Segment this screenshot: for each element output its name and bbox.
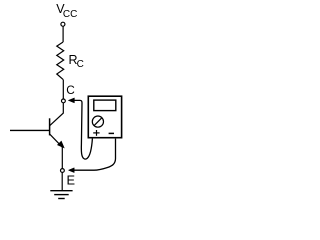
net label Vcc xyxy=(56,2,77,20)
arrow to node C xyxy=(68,98,74,103)
multimeter minus terminal xyxy=(109,132,114,134)
probe lead plus to node C xyxy=(74,100,92,159)
terminal Vcc xyxy=(61,22,65,26)
wire Rc to node C xyxy=(62,80,64,99)
svg-text:C: C xyxy=(77,59,84,70)
node E terminal xyxy=(61,169,65,173)
wire emitter to node E xyxy=(61,147,63,169)
ground xyxy=(50,191,72,199)
multimeter display xyxy=(94,100,116,111)
wire node E to ground xyxy=(61,172,63,190)
probe lead minus to node E xyxy=(74,139,116,171)
multimeter knob slash xyxy=(94,117,102,125)
transistor Q1 base bar xyxy=(49,118,51,135)
arrow to node E xyxy=(68,168,74,173)
svg-text:CC: CC xyxy=(63,9,77,20)
wire Vcc to Rc xyxy=(62,26,64,42)
transistor Q1 collector lead xyxy=(50,103,64,126)
svg-text:E: E xyxy=(67,172,76,187)
node C terminal xyxy=(62,99,66,103)
transistor Q1 emitter arrow xyxy=(58,141,65,148)
multimeter plus terminal xyxy=(93,130,99,136)
transistor Q1 base lead xyxy=(10,129,50,131)
svg-text:C: C xyxy=(66,83,75,97)
label RC xyxy=(69,53,84,70)
multimeter knob xyxy=(92,116,103,127)
resistor RC xyxy=(57,42,64,80)
multimeter body xyxy=(88,96,121,138)
transistor Q1 emitter lead xyxy=(50,134,63,147)
